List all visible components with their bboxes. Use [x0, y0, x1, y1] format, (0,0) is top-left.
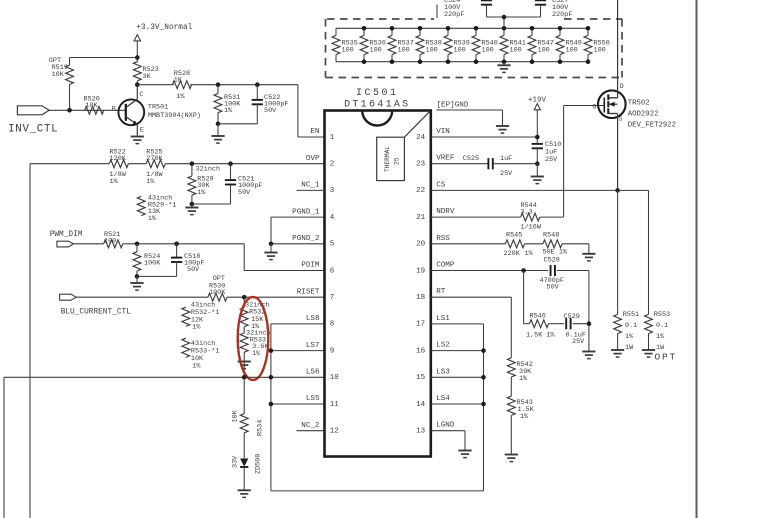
svg-text:1: 1	[330, 134, 335, 142]
svg-text:100: 100	[104, 238, 116, 246]
resistor R541	[503, 28, 505, 35]
wire LS5 net	[271, 403, 325, 405]
connector BLU_CURRENT_CTL	[60, 294, 77, 300]
svg-text:32inch: 32inch	[196, 166, 220, 174]
resistor R533-*1 alternate 43inch	[182, 338, 190, 357]
node LS6 junctions	[242, 375, 247, 380]
resistor R523	[133, 62, 141, 81]
node +3.3V junction	[135, 55, 140, 60]
svg-text:LS8: LS8	[306, 315, 320, 323]
svg-text:1W: 1W	[625, 344, 634, 352]
svg-text:220pF: 220pF	[444, 11, 464, 19]
svg-text:100: 100	[482, 47, 494, 55]
svg-text:25V: 25V	[572, 338, 585, 346]
transistor TR502 MOSFET	[598, 90, 626, 118]
svg-text:BLU_CURRENT_CTL: BLU_CURRENT_CTL	[61, 309, 132, 317]
svg-text:AOD2922: AOD2922	[628, 111, 659, 119]
svg-text:10: 10	[330, 374, 340, 382]
svg-text:LGND: LGND	[436, 422, 455, 430]
svg-text:S: S	[619, 116, 623, 123]
svg-text:1%: 1%	[148, 215, 157, 223]
svg-text:C529: C529	[564, 313, 580, 321]
wire R553 to ground	[648, 334, 650, 350]
resistor R533	[240, 333, 248, 352]
svg-text:100: 100	[454, 47, 466, 55]
resistor R529-*1 alternate 43inch	[137, 196, 145, 215]
zener diode ZD500	[243, 433, 245, 459]
capacitor C525	[488, 158, 492, 169]
wire OVP exit left	[29, 164, 31, 518]
svg-text:LS6: LS6	[306, 369, 320, 377]
svg-text:NDRV: NDRV	[436, 208, 455, 216]
node CS junction	[615, 188, 620, 193]
svg-text:1%: 1%	[224, 107, 233, 115]
wire OVP net	[30, 163, 109, 165]
svg-text:+3.3V_Normal: +3.3V_Normal	[136, 24, 192, 32]
wire R548 to ground	[562, 243, 589, 245]
wire LS4 net	[431, 403, 484, 405]
resistor R551	[617, 190, 619, 314]
resistor R531	[217, 85, 219, 94]
svg-text:1%: 1%	[110, 178, 119, 186]
ground EP pad	[496, 126, 509, 133]
svg-text:6: 6	[330, 267, 335, 275]
wire VIN net	[431, 136, 537, 138]
connector INV_CTL	[17, 106, 49, 115]
node RISET junction	[242, 295, 247, 300]
svg-text:DEV_FET2922: DEV_FET2922	[628, 122, 676, 130]
resistor R539	[447, 28, 449, 35]
svg-text:100: 100	[538, 47, 550, 55]
wire PWM_DIM to R521	[73, 243, 103, 245]
svg-text:1,5K 1%: 1,5K 1%	[526, 332, 555, 340]
svg-text:100: 100	[426, 47, 438, 55]
svg-text:1/16W: 1/16W	[521, 224, 542, 232]
svg-text:220pF: 220pF	[552, 11, 572, 19]
svg-text:100: 100	[510, 47, 522, 55]
ground PGND	[270, 244, 272, 253]
resistor R528	[172, 81, 191, 89]
node R531 junction	[216, 82, 221, 87]
svg-text:3,3: 3,3	[521, 209, 533, 217]
svg-text:DT1641AS: DT1641AS	[344, 99, 410, 110]
ground for resistor bank	[503, 62, 505, 66]
svg-text:1uF: 1uF	[500, 155, 512, 163]
capacitor C529	[566, 318, 570, 329]
svg-text:100K: 100K	[209, 289, 226, 297]
svg-text:4: 4	[330, 214, 335, 222]
node COMP junction	[521, 268, 526, 273]
svg-text:PWM_DIM: PWM_DIM	[50, 231, 83, 239]
wire COMP branch down	[523, 271, 525, 324]
resistor R542	[507, 358, 515, 377]
resistor R520	[85, 106, 104, 114]
dashed option box (resistor bank)	[326, 19, 623, 78]
svg-text:25V: 25V	[500, 170, 513, 178]
node C518 junction	[174, 242, 179, 247]
svg-text:C: C	[139, 91, 143, 99]
wire LS3 net	[431, 376, 484, 378]
svg-text:LS1: LS1	[436, 315, 450, 323]
resistor R549	[559, 28, 561, 35]
svg-text:R553: R553	[654, 311, 670, 319]
wire R533 to LS6 node	[243, 352, 245, 377]
ground R551	[611, 350, 624, 357]
svg-text:21: 21	[416, 214, 426, 222]
svg-text:[EP]GND: [EP]GND	[437, 102, 469, 110]
node R529 junction	[190, 161, 195, 166]
svg-text:100: 100	[594, 47, 606, 55]
resistor R545	[505, 240, 524, 248]
stub NC_2	[297, 430, 325, 432]
node C521 junction	[228, 161, 233, 166]
resistor R532	[243, 297, 245, 307]
wire EN net	[190, 84, 298, 86]
wire COMP net	[431, 270, 548, 272]
svg-text:14: 14	[416, 401, 426, 409]
wire RT net	[431, 296, 511, 298]
wire R544 to gate	[540, 216, 564, 218]
wire LS6 net	[4, 376, 325, 378]
svg-text:25: 25	[394, 157, 401, 165]
wire LS8 net	[271, 323, 325, 325]
svg-text:LS7: LS7	[306, 342, 320, 350]
svg-text:E: E	[140, 126, 144, 134]
resistor R532-*1 alternate 43inch	[182, 307, 190, 326]
wire R546 to C529	[549, 323, 565, 325]
svg-text:10K: 10K	[52, 71, 65, 79]
ground tap on R533 node	[238, 362, 251, 369]
wire VREF net	[431, 163, 488, 165]
wire LS2 net	[431, 350, 484, 352]
node LS4 junction	[481, 402, 486, 407]
svg-text:1K: 1K	[174, 77, 183, 85]
svg-text:LS5: LS5	[306, 395, 320, 403]
svg-text:13: 13	[416, 428, 426, 436]
wire RISET net	[76, 296, 208, 298]
wire collector to EN	[137, 84, 174, 86]
svg-text:1%: 1%	[519, 375, 528, 383]
resistor R530	[208, 293, 227, 301]
capacitor C510	[532, 144, 543, 148]
svg-text:0.1: 0.1	[656, 322, 668, 330]
resistor R544	[521, 213, 540, 221]
node R524 junction	[135, 242, 140, 247]
svg-text:50V: 50V	[187, 266, 200, 274]
svg-text:R534: R534	[257, 420, 265, 436]
node C522 junction	[255, 82, 260, 87]
svg-text:R545: R545	[506, 232, 522, 240]
svg-text:33V: 33V	[232, 455, 240, 468]
red annotation ellipse	[238, 297, 269, 380]
svg-text:RSS: RSS	[436, 235, 450, 243]
svg-text:RT: RT	[436, 288, 446, 296]
node R529 bottom junction	[190, 202, 195, 207]
svg-text:15: 15	[416, 374, 426, 382]
ground ZD500	[238, 490, 251, 497]
svg-text:11: 11	[330, 401, 340, 409]
resistor R538	[419, 28, 421, 35]
wire INV_CTL to base	[49, 109, 126, 111]
svg-text:1%: 1%	[625, 333, 634, 341]
ground C528/C529 leg	[582, 352, 595, 359]
svg-text:1%: 1%	[252, 350, 261, 358]
thermal pad box	[377, 137, 405, 180]
ground LGND	[458, 451, 471, 458]
resistor R536	[363, 28, 365, 35]
svg-text:220K: 220K	[504, 250, 521, 258]
wire PGND_1 net	[271, 216, 325, 218]
svg-text:PGND_1: PGND_1	[292, 208, 320, 216]
svg-text:G: G	[592, 104, 596, 111]
node LS7 junction	[269, 348, 274, 353]
svg-text:R546: R546	[530, 313, 546, 321]
resistor R540	[475, 28, 477, 35]
svg-text:ZD500: ZD500	[255, 454, 263, 474]
svg-text:5: 5	[330, 241, 335, 249]
svg-text:TR502: TR502	[628, 100, 650, 108]
svg-text:EN: EN	[310, 128, 319, 136]
svg-text:100K: 100K	[144, 260, 161, 268]
transistor TR501	[118, 99, 144, 125]
resistor R525	[146, 160, 165, 168]
node C529 junction	[587, 321, 592, 326]
node R531 bottom junction	[216, 122, 221, 127]
svg-text:1%: 1%	[146, 178, 155, 186]
svg-text:3: 3	[330, 187, 335, 195]
ground R529	[191, 204, 193, 208]
resistor R550	[587, 28, 589, 35]
wire ZD500 to ground	[243, 467, 245, 490]
svg-text:23: 23	[416, 161, 426, 169]
resistor R524	[136, 244, 138, 252]
svg-text:RISET: RISET	[297, 288, 320, 296]
wire R545 to R548	[525, 243, 543, 245]
junction dots on rails	[362, 26, 367, 31]
wire FET source to CS node	[617, 114, 619, 191]
svg-text:1%: 1%	[197, 189, 206, 197]
resistor R535	[335, 28, 337, 35]
wire PGND_2 net	[271, 243, 325, 245]
wire capacitor bus to resistor bank	[487, 16, 541, 18]
wire +3.3V to R519	[70, 57, 138, 59]
wire LS1 net	[431, 323, 484, 325]
svg-text:C528: C528	[544, 257, 560, 265]
svg-text:1%: 1%	[520, 413, 529, 421]
svg-text:10K: 10K	[232, 409, 240, 422]
svg-text:LS2: LS2	[436, 342, 450, 350]
capacitor C521	[230, 164, 232, 180]
svg-text:25V: 25V	[545, 156, 558, 164]
svg-text:NC_1: NC_1	[301, 182, 320, 190]
svg-text:C525: C525	[463, 155, 479, 163]
node LS3 junction	[481, 375, 486, 380]
svg-text:TR501: TR501	[148, 104, 168, 112]
node VREF junction	[535, 161, 540, 166]
svg-text:7: 7	[330, 294, 335, 302]
sheet border line	[696, 0, 698, 518]
wire PDIM net	[123, 243, 244, 245]
svg-text:100: 100	[566, 47, 578, 55]
node R524 bottom junction	[135, 274, 140, 279]
svg-text:12: 12	[330, 428, 339, 436]
svg-text:0.1: 0.1	[625, 322, 637, 330]
svg-text:50V: 50V	[547, 284, 560, 292]
resistor R546	[529, 320, 548, 328]
svg-text:19: 19	[416, 267, 425, 275]
svg-text:VIN: VIN	[436, 128, 450, 136]
svg-text:1%: 1%	[192, 362, 201, 370]
capacitor C522	[256, 85, 258, 100]
node collector junction	[135, 82, 140, 87]
resistor R537	[391, 28, 393, 35]
wire C528 to ground leg	[557, 270, 589, 272]
svg-text:3K: 3K	[143, 73, 152, 81]
svg-text:THERMAL: THERMAL	[384, 146, 391, 172]
svg-text:18: 18	[416, 294, 425, 302]
node LS5 junction	[269, 402, 274, 407]
svg-text:1%: 1%	[525, 250, 534, 258]
svg-text:1%: 1%	[192, 324, 201, 332]
stub NC_1	[297, 189, 325, 191]
ground R531	[217, 124, 219, 136]
svg-text:17: 17	[416, 321, 425, 329]
wire CS net	[431, 189, 618, 191]
wire CS to R553	[618, 189, 649, 191]
svg-text:CS: CS	[436, 181, 446, 189]
svg-text:NC_2: NC_2	[301, 422, 320, 430]
svg-text:270K: 270K	[146, 155, 163, 163]
svg-text:100: 100	[370, 47, 382, 55]
svg-text:OVP: OVP	[306, 155, 320, 163]
resistor R543	[507, 396, 515, 415]
svg-text:R551: R551	[623, 311, 639, 319]
wire R542 to R543	[510, 377, 512, 396]
wire LGND net	[431, 430, 465, 432]
ground R553 OPT	[642, 350, 655, 357]
capacitor C524	[481, 0, 492, 4]
svg-text:D: D	[620, 83, 624, 90]
svg-text:MMBT3904(NXP): MMBT3904(NXP)	[148, 112, 201, 120]
ground R548	[582, 254, 595, 261]
resistor R521	[104, 240, 123, 248]
svg-text:9: 9	[330, 347, 335, 355]
capacitor C528	[551, 265, 555, 276]
svg-text:LS4: LS4	[436, 395, 450, 403]
svg-text:2: 2	[330, 161, 335, 169]
capacitor C518	[176, 244, 178, 258]
wire R551 to ground	[617, 334, 619, 350]
svg-text:10K: 10K	[85, 102, 98, 110]
svg-text:INV_CTL: INV_CTL	[8, 124, 58, 136]
svg-text:24: 24	[416, 134, 426, 142]
svg-text:LS3: LS3	[436, 368, 450, 376]
ground R543	[505, 455, 518, 462]
svg-text:OPT: OPT	[655, 352, 678, 363]
svg-text:COMP: COMP	[436, 262, 455, 270]
svg-text:100: 100	[398, 47, 410, 55]
svg-text:50V: 50V	[238, 189, 251, 197]
svg-text:20: 20	[416, 241, 426, 249]
wire R532 to R533	[243, 327, 245, 333]
wire RSS net	[431, 243, 505, 245]
node LS2 junction	[481, 348, 486, 353]
svg-text:R548: R548	[543, 232, 559, 240]
resistor R534	[243, 377, 245, 414]
svg-text:100: 100	[342, 47, 354, 55]
node R519 base junction	[67, 108, 72, 113]
svg-text:50E 1%: 50E 1%	[543, 249, 568, 257]
capacitor C527	[535, 0, 546, 4]
resistor R553	[648, 190, 650, 314]
ground R524	[136, 276, 138, 283]
resistor R529	[191, 164, 193, 176]
node PGND junction	[269, 242, 274, 247]
ground C510	[536, 164, 538, 177]
node VIN junction	[535, 135, 540, 140]
resistor bank rails	[336, 27, 588, 29]
svg-text:VREF: VREF	[436, 155, 455, 163]
svg-text:50V: 50V	[264, 107, 277, 115]
resistor R547	[531, 28, 533, 35]
svg-text:IC501: IC501	[356, 88, 399, 99]
resistor R522	[109, 160, 128, 168]
wire NDRV net	[431, 216, 521, 218]
wire bottom bus	[271, 490, 484, 492]
svg-text:PGND_2: PGND_2	[292, 235, 320, 243]
svg-text:1%: 1%	[176, 93, 185, 101]
svg-text:16: 16	[416, 347, 426, 355]
IC U501 body	[325, 111, 431, 457]
resistor R548	[543, 240, 562, 248]
svg-text:22: 22	[416, 187, 425, 195]
svg-text:PDIM: PDIM	[301, 262, 320, 270]
svg-text:8: 8	[330, 321, 335, 329]
wire LS7 net	[271, 350, 325, 352]
svg-text:120K: 120K	[110, 155, 127, 163]
ground TR501 emitter	[131, 137, 144, 144]
svg-text:1%: 1%	[656, 333, 665, 341]
wire stub from upper circuit	[436, 5, 438, 19]
wire R543 to ground	[510, 415, 512, 454]
svg-text:B: B	[112, 105, 116, 113]
